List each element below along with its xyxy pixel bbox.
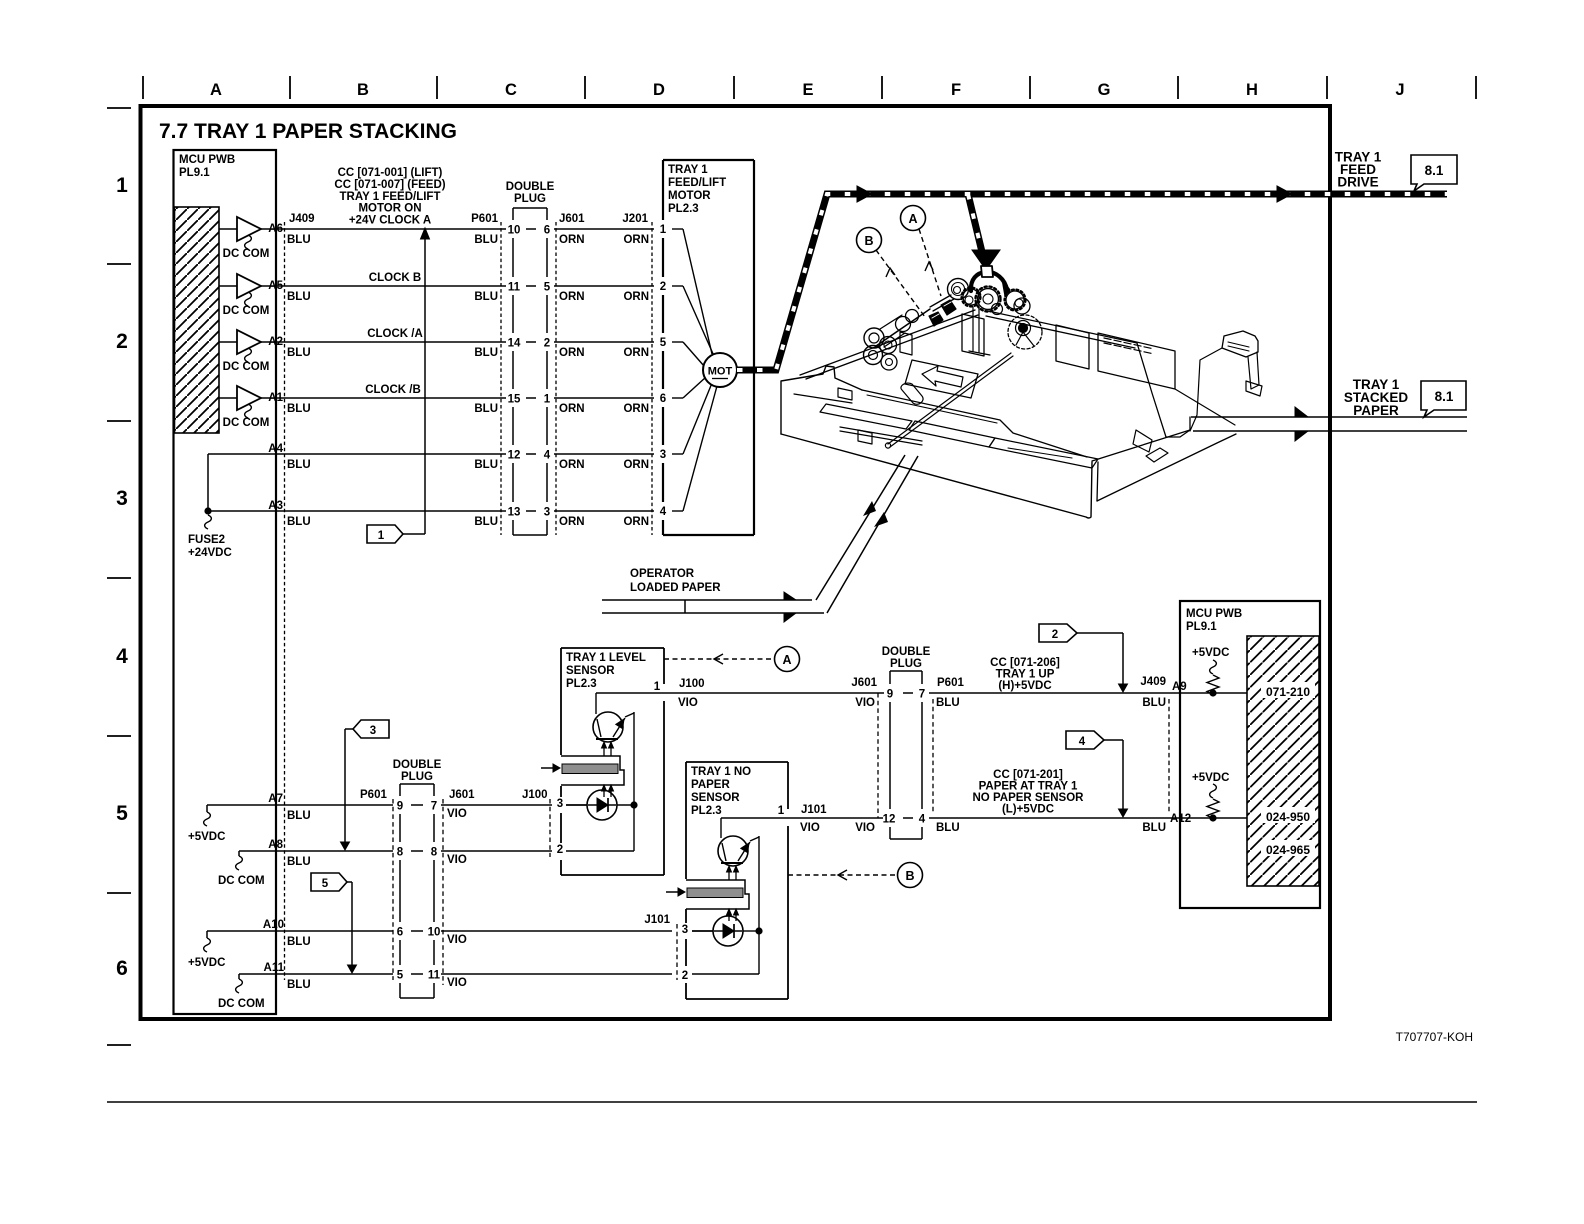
svg-text:BLU: BLU — [287, 347, 311, 359]
svg-text:2: 2 — [660, 281, 666, 293]
wire J101-3 to LED — [692, 930, 713, 932]
TRAY 1 FEED/LIFT MOTOR PL2.3 box — [663, 159, 754, 161]
svg-text:VIO: VIO — [447, 934, 467, 946]
svg-text:SENSOR: SENSOR — [566, 665, 615, 677]
tray right extension beam — [1222, 331, 1258, 357]
svg-text:VIO: VIO — [678, 697, 698, 709]
no-paper sensor internal: LED — [692, 930, 713, 932]
svg-text:3: 3 — [682, 924, 688, 936]
wire row y=931 BLU/VIO — [207, 930, 393, 932]
svg-text:TRAY 1 LEVEL: TRAY 1 LEVEL — [566, 652, 646, 664]
svg-text:1: 1 — [778, 805, 785, 817]
svg-text:PAPER: PAPER — [691, 779, 730, 791]
svg-text:DC COM: DC COM — [223, 305, 270, 317]
flag 4 — [1066, 731, 1104, 749]
toothed gear — [963, 289, 979, 305]
svg-text:DOUBLE: DOUBLE — [393, 759, 442, 771]
DC COM (ground) symbol — [245, 404, 252, 418]
svg-text:A8: A8 — [268, 839, 283, 851]
svg-text:BLU: BLU — [474, 403, 498, 415]
svg-text:BLU: BLU — [287, 459, 311, 471]
deck interior: mid guide strips — [909, 421, 995, 447]
no-paper sensor internal: phototransistor — [721, 817, 790, 819]
svg-text:ORN: ORN — [623, 403, 649, 415]
flag 3 — [353, 720, 389, 738]
svg-text:PL9.1: PL9.1 — [1186, 621, 1217, 633]
svg-text:14: 14 — [508, 338, 521, 350]
DOUBLE PLUG bracket (lower-left) — [400, 783, 434, 785]
svg-text:P601: P601 — [471, 213, 498, 225]
svg-text:BLU: BLU — [287, 856, 311, 868]
bracket plate below — [969, 307, 990, 355]
svg-text:A3: A3 — [268, 500, 283, 512]
callout circle A (schematic) — [775, 647, 800, 672]
svg-text:DC COM: DC COM — [218, 998, 265, 1010]
svg-text:(L)+5VDC: (L)+5VDC — [1002, 804, 1054, 816]
svg-text:DC COM: DC COM — [223, 417, 270, 429]
svg-text:J601: J601 — [851, 677, 877, 689]
DOUBLE PLUG bracket (mid) — [890, 670, 922, 672]
flag 4 arrow down to A12 wire — [1104, 739, 1123, 741]
+5VDC source (A7) — [206, 805, 208, 812]
svg-text:C: C — [505, 81, 517, 99]
light arrows — [603, 746, 605, 756]
svg-text:DC COM: DC COM — [223, 248, 270, 260]
svg-text:6: 6 — [397, 927, 403, 939]
deck interior: center plate — [962, 314, 984, 356]
svg-text:3: 3 — [660, 449, 666, 461]
svg-text:+5VDC: +5VDC — [1192, 647, 1229, 659]
svg-text:DOUBLE: DOUBLE — [506, 181, 555, 193]
front adjust rod — [888, 353, 1013, 447]
svg-text:PL2.3: PL2.3 — [691, 805, 722, 817]
tray front face top edge — [781, 434, 1092, 518]
svg-text:CLOCK B: CLOCK B — [369, 272, 421, 284]
MOT motor circle U-MOT — [703, 353, 737, 387]
svg-text:E: E — [802, 81, 813, 99]
motor internal wires to MOT — [672, 228, 683, 230]
svg-text:J100: J100 — [679, 678, 705, 690]
tray front face inner line — [1008, 448, 1072, 458]
tray right corner — [1097, 462, 1098, 501]
bottom separator line — [107, 1101, 1477, 1103]
svg-text:9: 9 — [887, 689, 893, 701]
tray deck left rail — [800, 310, 978, 379]
flag 3 arrow down to A8 wire — [345, 728, 353, 730]
fault code 024-950 — [1261, 807, 1315, 823]
svg-text:D: D — [653, 81, 665, 99]
svg-text:DC COM: DC COM — [218, 875, 265, 887]
svg-text:+24V CLOCK A: +24V CLOCK A — [349, 215, 431, 227]
svg-text:CLOCK /B: CLOCK /B — [365, 384, 421, 396]
connector J101 dashed — [676, 924, 678, 980]
svg-text:A: A — [210, 81, 222, 99]
svg-text:VIO: VIO — [855, 822, 875, 834]
svg-text:8: 8 — [397, 847, 404, 859]
svg-text:5: 5 — [544, 282, 551, 294]
svg-text:J101: J101 — [801, 804, 827, 816]
svg-text:A6: A6 — [268, 223, 283, 235]
svg-text:J601: J601 — [559, 213, 585, 225]
svg-text:7.7 TRAY 1 PAPER STACKING: 7.7 TRAY 1 PAPER STACKING — [159, 120, 457, 143]
svg-text:BLU: BLU — [287, 234, 311, 246]
svg-text:SENSOR: SENSOR — [691, 792, 740, 804]
connector J601 dashed (mid) — [877, 693, 879, 818]
svg-text:MCU PWB: MCU PWB — [1186, 608, 1242, 620]
svg-text:4: 4 — [544, 450, 551, 462]
dashed link to no-paper sensor — [788, 874, 897, 876]
level sensor internal: phototransistor Q — [596, 692, 666, 694]
svg-text:FEED/LIFT: FEED/LIFT — [668, 177, 726, 189]
motor bracket (thick) — [971, 272, 1007, 291]
svg-text:MCU PWB: MCU PWB — [179, 154, 235, 166]
svg-text:B: B — [357, 81, 369, 99]
deck interior: mid wall — [1056, 325, 1089, 369]
svg-text:6: 6 — [660, 393, 666, 405]
svg-text:A: A — [782, 653, 791, 667]
svg-text:4: 4 — [116, 645, 128, 668]
svg-text:ORN: ORN — [623, 347, 649, 359]
svg-text:1: 1 — [378, 530, 385, 542]
svg-text:LOADED PAPER: LOADED PAPER — [630, 582, 721, 594]
svg-text:3: 3 — [370, 725, 376, 737]
connector P601 dashed (mid) — [932, 699, 934, 813]
tray deck front edge — [862, 390, 1087, 457]
svg-text:BLU: BLU — [287, 516, 311, 528]
svg-text:ORN: ORN — [559, 403, 585, 415]
svg-text:BLU: BLU — [1142, 822, 1166, 834]
svg-text:BLU: BLU — [474, 234, 498, 246]
svg-text:6: 6 — [116, 957, 128, 980]
svg-text:+5VDC: +5VDC — [1192, 772, 1229, 784]
connector J201 dashed line — [651, 222, 653, 535]
svg-text:BLU: BLU — [474, 516, 498, 528]
svg-text:BLU: BLU — [474, 459, 498, 471]
svg-text:J409: J409 — [289, 213, 315, 225]
svg-text:3: 3 — [116, 487, 128, 510]
svg-text:1: 1 — [544, 394, 551, 406]
buffer driver A2 — [219, 341, 237, 343]
svg-text:TRAY 1 UP: TRAY 1 UP — [996, 669, 1055, 681]
svg-text:VIO: VIO — [800, 822, 820, 834]
roller cluster — [864, 328, 884, 348]
wire row y=286 (BLU/ORN) — [261, 285, 506, 287]
svg-text:J101: J101 — [644, 914, 670, 926]
svg-text:ORN: ORN — [623, 459, 649, 471]
svg-text:PLUG: PLUG — [401, 771, 433, 783]
top ruler ticks — [142, 76, 144, 99]
wire row A9 (level sensor 1 to MCU) — [666, 692, 884, 694]
svg-text:BLU: BLU — [287, 291, 311, 303]
page border frame — [141, 106, 1331, 1019]
MCU right hatched block — [1247, 636, 1319, 886]
svg-text:A: A — [908, 212, 917, 226]
operator loaded paper flow lines — [602, 599, 812, 601]
svg-text:A11: A11 — [264, 962, 285, 974]
deck interior: arrow plate — [905, 360, 978, 398]
callout circle B (tray) — [857, 228, 882, 253]
svg-text:8: 8 — [431, 847, 438, 859]
MCU left hatched block — [175, 207, 220, 433]
svg-text:MOT: MOT — [708, 366, 733, 378]
beam link to tray — [1190, 348, 1222, 431]
shaft clips (A/B leader targets) — [941, 300, 956, 315]
svg-text:12: 12 — [883, 814, 896, 826]
stacked paper exit pocket — [1133, 430, 1152, 452]
node +24VDC feed: vertical tie A4-A3 — [207, 454, 209, 511]
svg-text:J601: J601 — [449, 789, 475, 801]
DC COM (A11) — [238, 974, 240, 979]
svg-text:5: 5 — [660, 337, 667, 349]
svg-text:2: 2 — [557, 844, 563, 856]
svg-text:4: 4 — [1079, 736, 1086, 748]
wire row A12 (no-paper sensor 1 to MCU) — [790, 817, 883, 819]
connector J100 dashed — [549, 799, 551, 857]
TRAY 1 NO PAPER SENSOR PL2.3 box — [686, 761, 788, 763]
svg-text:BLU: BLU — [1142, 697, 1166, 709]
buffer driver A6 — [219, 228, 237, 230]
svg-text:6: 6 — [544, 225, 550, 237]
svg-text:4: 4 — [660, 506, 667, 518]
svg-text:J100: J100 — [522, 789, 548, 801]
svg-text:H: H — [1246, 81, 1258, 99]
pendulum sector disc — [1008, 315, 1042, 349]
tray deck right edge — [1137, 343, 1166, 437]
svg-text:2: 2 — [1052, 629, 1058, 641]
svg-text:BLU: BLU — [287, 810, 311, 822]
flag 5 arrow down to A11 wire — [347, 881, 352, 883]
svg-text:A10: A10 — [263, 919, 284, 931]
svg-text:A2: A2 — [268, 336, 283, 348]
connector P601 dashed (lower-left) — [392, 799, 394, 980]
svg-text:TRAY 1 NO: TRAY 1 NO — [691, 766, 751, 778]
svg-text:FUSE2: FUSE2 — [188, 534, 225, 546]
svg-text:A5: A5 — [268, 280, 283, 292]
svg-text:B: B — [905, 869, 914, 883]
8.1 callout box (stacked paper) — [1421, 381, 1466, 417]
svg-text:CC [071-001] (LIFT): CC [071-001] (LIFT) — [338, 167, 443, 179]
svg-text:PL2.3: PL2.3 — [566, 678, 597, 690]
tray front panel — [781, 366, 862, 434]
connector J409 dashed line — [284, 222, 286, 980]
no-paper sensor actuator bar — [686, 880, 749, 909]
svg-text:T707707-KOH: T707707-KOH — [1396, 1030, 1473, 1044]
wire J100-3 to LED — [566, 804, 587, 806]
deck interior: right block — [1098, 333, 1175, 389]
svg-text:BLU: BLU — [287, 936, 311, 948]
svg-text:BLU: BLU — [474, 291, 498, 303]
svg-text:ORN: ORN — [559, 234, 585, 246]
svg-text:ORN: ORN — [623, 516, 649, 528]
svg-text:1: 1 — [660, 224, 667, 236]
svg-text:P601: P601 — [360, 789, 387, 801]
svg-text:TRAY 1 FEED/LIFT: TRAY 1 FEED/LIFT — [340, 191, 441, 203]
svg-text:MOTOR ON: MOTOR ON — [358, 203, 421, 215]
svg-text:071-210: 071-210 — [1266, 685, 1310, 699]
svg-text:13: 13 — [508, 507, 521, 519]
junction dot at A3 — [204, 507, 211, 514]
svg-text:ORN: ORN — [559, 459, 585, 471]
MCU PWB PL9.1 (left) box — [174, 150, 277, 1014]
svg-text:A7: A7 — [268, 793, 283, 805]
svg-text:DRIVE: DRIVE — [1337, 175, 1378, 190]
svg-text:PL9.1: PL9.1 — [179, 167, 210, 179]
svg-text:PAPER AT TRAY 1: PAPER AT TRAY 1 — [979, 781, 1078, 793]
actuator arrow into bar — [541, 767, 553, 769]
dashed link to level sensor — [664, 658, 774, 660]
svg-text:CC [071-206]: CC [071-206] — [990, 657, 1060, 669]
svg-text:+5VDC: +5VDC — [188, 957, 225, 969]
svg-text:3: 3 — [557, 798, 563, 810]
bracket stem under arrow — [981, 266, 993, 277]
svg-text:ORN: ORN — [559, 291, 585, 303]
svg-text:15: 15 — [508, 394, 521, 406]
flag 5 — [311, 873, 347, 891]
svg-text:PLUG: PLUG — [514, 193, 546, 205]
connector J409 dashed (right) — [1168, 699, 1170, 813]
svg-text:VIO: VIO — [447, 854, 467, 866]
svg-text:12: 12 — [508, 450, 521, 462]
connector J601 dashed line (upper) — [555, 222, 557, 535]
pick gear train: shaft end disc — [948, 279, 969, 300]
svg-text:ORN: ORN — [623, 234, 649, 246]
level sensor flag/actuator bar — [561, 756, 624, 785]
svg-text:BLU: BLU — [936, 822, 960, 834]
connector P601 dashed line (upper) — [500, 222, 502, 535]
svg-text:A4: A4 — [268, 443, 283, 455]
svg-text:10: 10 — [428, 927, 441, 939]
feed shaft — [930, 295, 954, 311]
svg-text:CC [071-007] (FEED): CC [071-007] (FEED) — [334, 179, 445, 191]
deck interior: small posts — [900, 332, 912, 355]
wire row y=342 (BLU/ORN) — [261, 341, 506, 343]
svg-text:2: 2 — [544, 338, 550, 350]
svg-text:5: 5 — [397, 970, 404, 982]
svg-text:NO PAPER SENSOR: NO PAPER SENSOR — [973, 792, 1085, 804]
svg-text:7: 7 — [431, 801, 437, 813]
deck interior: left guide strip — [820, 404, 912, 429]
svg-text:8.1: 8.1 — [1425, 163, 1444, 178]
tray right face — [1097, 434, 1236, 501]
svg-text:024-950: 024-950 — [1266, 810, 1310, 824]
svg-text:F: F — [951, 81, 961, 99]
left ruler ticks — [107, 107, 131, 109]
svg-text:10: 10 — [508, 225, 521, 237]
svg-text:024-965: 024-965 — [1266, 843, 1310, 857]
svg-text:VIO: VIO — [447, 808, 467, 820]
wire from flag 1 up to +24V CLOCK A — [403, 533, 425, 535]
tray deck back rail — [986, 311, 1137, 348]
svg-text:5: 5 — [116, 802, 128, 825]
wire row y=805 BLU/VIO — [207, 804, 393, 806]
svg-text:9: 9 — [397, 801, 403, 813]
svg-text:CLOCK /A: CLOCK /A — [367, 328, 423, 340]
svg-text:PL2.3: PL2.3 — [668, 203, 699, 215]
svg-text:8.1: 8.1 — [1435, 389, 1454, 404]
svg-text:MOTOR: MOTOR — [668, 190, 711, 202]
wire row y=229 (BLU/ORN) — [261, 228, 506, 230]
wire row y=454 (BLU/ORN) — [208, 453, 506, 455]
svg-text:TRAY 1: TRAY 1 — [668, 164, 708, 176]
svg-text:J: J — [1395, 81, 1404, 99]
callout circle B (schematic) — [898, 863, 923, 888]
svg-text:1: 1 — [116, 174, 128, 197]
wire row y=511 (BLU/ORN) — [208, 510, 506, 512]
svg-text:ORN: ORN — [559, 347, 585, 359]
wire row y=974 BLU/VIO — [239, 973, 393, 975]
level sensor internal: LED D — [566, 804, 587, 806]
front slide bar — [840, 427, 922, 445]
svg-text:DC COM: DC COM — [223, 361, 270, 373]
big down arrow to feed rollers — [972, 250, 1000, 270]
DC COM (ground) symbol — [245, 348, 252, 362]
belt arrowheads — [857, 186, 872, 202]
svg-text:(H)+5VDC: (H)+5VDC — [998, 680, 1051, 692]
svg-text:11: 11 — [508, 282, 521, 294]
svg-text:PAPER: PAPER — [1353, 403, 1399, 418]
svg-text:7: 7 — [919, 689, 925, 701]
svg-text:+24VDC: +24VDC — [188, 547, 232, 559]
svg-text:1: 1 — [654, 681, 661, 693]
fault code 024-965 — [1261, 840, 1315, 856]
flag 1 — [367, 525, 403, 543]
svg-text:VIO: VIO — [855, 697, 875, 709]
svg-text:ORN: ORN — [623, 291, 649, 303]
DC COM (ground) symbol — [245, 235, 252, 249]
svg-text:4: 4 — [919, 814, 926, 826]
MCU PWB PL9.1 (right) box — [1180, 601, 1320, 908]
svg-text:A12: A12 — [1170, 813, 1191, 825]
connector J601 dashed (lower-left) — [442, 799, 444, 985]
pendulum arm — [901, 383, 923, 404]
svg-text:A1: A1 — [268, 392, 283, 404]
svg-text:+5VDC: +5VDC — [188, 831, 225, 843]
DC COM (A8) — [238, 851, 240, 856]
buffer driver A1 — [219, 397, 237, 399]
svg-text:P601: P601 — [937, 677, 964, 689]
8.1 callout box (feed drive) — [1411, 155, 1457, 191]
wire row y=851 BLU/VIO — [239, 850, 393, 852]
svg-text:PLUG: PLUG — [890, 658, 922, 670]
callout circle A (tray) — [901, 206, 926, 231]
flag 2 — [1039, 624, 1077, 642]
svg-text:OPERATOR: OPERATOR — [630, 568, 695, 580]
buffer driver A5 — [219, 285, 237, 287]
svg-text:A9: A9 — [1172, 681, 1187, 693]
svg-text:BLU: BLU — [287, 403, 311, 415]
svg-text:J201: J201 — [622, 213, 648, 225]
svg-text:11: 11 — [428, 970, 441, 982]
big gear — [978, 289, 999, 310]
+5VDC source (A10) — [206, 931, 208, 938]
svg-text:5: 5 — [322, 878, 329, 890]
svg-text:CC [071-201]: CC [071-201] — [993, 769, 1063, 781]
stacked paper flow lines — [1191, 416, 1467, 418]
svg-text:B: B — [864, 234, 873, 248]
svg-text:BLU: BLU — [287, 979, 311, 991]
svg-text:2: 2 — [116, 330, 128, 353]
svg-text:3: 3 — [544, 507, 550, 519]
svg-text:J409: J409 — [1140, 676, 1166, 688]
svg-text:BLU: BLU — [936, 697, 960, 709]
svg-text:G: G — [1098, 81, 1111, 99]
leader A dashed — [919, 229, 941, 296]
svg-text:ORN: ORN — [559, 516, 585, 528]
svg-text:DOUBLE: DOUBLE — [882, 646, 931, 658]
flag 2 arrow down to A9 wire — [1077, 632, 1123, 634]
fault code 071-210 — [1261, 682, 1315, 698]
right gear pair — [1006, 291, 1024, 309]
